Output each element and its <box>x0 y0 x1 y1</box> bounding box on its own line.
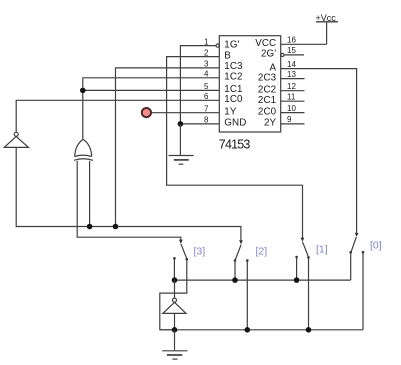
switch S2 arrow <box>239 240 243 244</box>
switch S0 left post <box>349 251 352 254</box>
ground symbol under IC <box>169 156 194 165</box>
wire pin7 1Y stub <box>150 112 220 114</box>
svg-text:+Vcc: +Vcc <box>316 13 337 23</box>
svg-text:15: 15 <box>287 46 296 55</box>
wire inverter input down to bus <box>16 147 241 243</box>
wire pin8 GND stub <box>180 123 219 125</box>
node U4 gnd junction <box>172 327 178 333</box>
svg-text:16: 16 <box>287 36 296 45</box>
svg-text:1: 1 <box>204 37 209 46</box>
wire gnd stem bottom <box>174 330 176 351</box>
wire pin4 1C2 to XOR output <box>83 78 220 140</box>
svg-text:1Y: 1Y <box>224 107 237 118</box>
power +Vcc symbol <box>316 22 338 45</box>
svg-text:2C0: 2C0 <box>258 106 277 117</box>
svg-text:[0]: [0] <box>370 240 382 252</box>
pin 15 bubble <box>281 53 284 56</box>
svg-text:11: 11 <box>287 92 296 101</box>
switch S0 arrow <box>355 233 359 237</box>
svg-text:[3]: [3] <box>194 245 206 257</box>
switch S3 blade <box>181 244 187 259</box>
wire GND drop <box>179 124 181 155</box>
wire pin6 1C0 to inverter output <box>16 100 219 132</box>
switch S1 right post tick <box>307 256 310 259</box>
inverter U2 triangle <box>4 136 28 147</box>
wire S3 left post to bus280 <box>173 259 175 280</box>
ground symbol bottom <box>162 351 187 359</box>
switch S1 blade <box>303 242 309 257</box>
svg-text:9: 9 <box>287 115 292 124</box>
probe red dot on 1Y <box>142 108 151 117</box>
switch S3 arrow <box>179 240 183 244</box>
switch S0 blade <box>351 237 356 252</box>
wire pin2 B to switch [1] <box>167 57 303 241</box>
svg-text:8: 8 <box>204 116 209 125</box>
svg-text:[2]: [2] <box>256 246 268 258</box>
wire S0 right post to gnd line <box>362 252 364 330</box>
inverter U4 bubble <box>173 298 177 302</box>
wire pin10 stub <box>281 112 305 114</box>
node S1 gnd junction <box>306 327 312 333</box>
pin 1 bubble <box>216 44 219 47</box>
svg-text:1C0: 1C0 <box>224 94 243 105</box>
svg-text:2C1: 2C1 <box>258 95 276 106</box>
svg-text:2C2: 2C2 <box>258 85 276 96</box>
node S3 bus junction <box>172 277 178 283</box>
switch S2 right post tick <box>246 259 249 262</box>
wire pin9 stub <box>281 123 305 125</box>
wire pin5 1C1 <box>83 89 220 91</box>
wire XOR input 1 to switch [3] <box>77 161 181 243</box>
svg-text:7: 7 <box>204 104 209 113</box>
switch S2 left post <box>234 259 237 262</box>
wire S2 left post to bus280 <box>234 261 236 281</box>
node S1 bus junction <box>294 277 300 283</box>
wire S3 right post around inverter to gnd line <box>160 259 187 330</box>
inverter U2 bubble <box>14 132 18 136</box>
node S2 bus junction <box>232 277 238 283</box>
svg-text:2: 2 <box>204 48 209 57</box>
wire S0 left post to bus280 <box>350 252 352 280</box>
wire pin12 stub <box>281 90 305 92</box>
wire S1 left post to bus280 <box>296 257 298 280</box>
pin numbers right <box>287 36 296 125</box>
svg-text:5: 5 <box>204 82 209 91</box>
svg-text:VCC: VCC <box>255 38 276 49</box>
switch S2 blade <box>235 245 241 260</box>
svg-text:12: 12 <box>287 82 296 91</box>
svg-text:2G': 2G' <box>261 49 276 60</box>
svg-text:B: B <box>224 50 231 61</box>
wire pin15 2G' stub <box>284 54 304 56</box>
xor gate U3 <box>74 139 93 160</box>
svg-text:1C2: 1C2 <box>224 72 242 83</box>
svg-text:14: 14 <box>287 60 296 69</box>
wire bus280 to inverter U4 input <box>174 280 176 298</box>
wire pin13 stub <box>281 78 305 80</box>
wire pin11 stub <box>281 100 305 102</box>
inverter U4 triangle <box>163 302 186 313</box>
svg-text:1G': 1G' <box>224 39 239 50</box>
wire pin16 VCC <box>281 43 327 45</box>
switch S1 arrow <box>301 238 305 242</box>
op-amp U1 74153 IC box <box>219 36 280 132</box>
node pin8 GND junction <box>178 121 184 127</box>
svg-text:[1]: [1] <box>316 244 328 256</box>
wire S2 right post to gnd line <box>246 261 248 330</box>
switch S3 left post <box>173 257 176 260</box>
svg-text:GND: GND <box>224 118 246 129</box>
wire U4 output to ground node <box>174 313 176 329</box>
wire pin3 1C3 down to bus <box>116 68 220 227</box>
switch S0 right post tick <box>362 251 365 254</box>
wire logic-1 bus280 <box>175 279 351 281</box>
svg-text:10: 10 <box>287 104 296 113</box>
wire pin14 A to switch [0] <box>281 69 357 236</box>
svg-text:1C3: 1C3 <box>224 61 243 72</box>
pin numbers left <box>204 37 209 124</box>
IC right column labels <box>255 38 276 129</box>
svg-text:6: 6 <box>204 92 209 101</box>
wire S1 right post to gnd line <box>308 257 310 329</box>
svg-text:74153: 74153 <box>219 138 251 152</box>
svg-text:4: 4 <box>204 70 209 79</box>
switch S3 right post tick <box>186 258 189 261</box>
node pin3 bus junction <box>113 224 119 230</box>
node S2 gnd junction <box>245 327 251 333</box>
wire XOR input 2 to bus <box>89 161 91 227</box>
node pin5 XOR junction <box>80 88 86 94</box>
svg-text:2C3: 2C3 <box>258 72 277 83</box>
wire ground line330 <box>160 329 363 331</box>
svg-text:2Y: 2Y <box>264 118 277 129</box>
switch S1 left post <box>295 256 298 259</box>
svg-text:13: 13 <box>287 70 296 79</box>
wire pin1 1G' to GND vertical <box>180 46 215 124</box>
svg-text:3: 3 <box>204 60 209 69</box>
node XOR input 2 bus junction <box>87 224 93 230</box>
